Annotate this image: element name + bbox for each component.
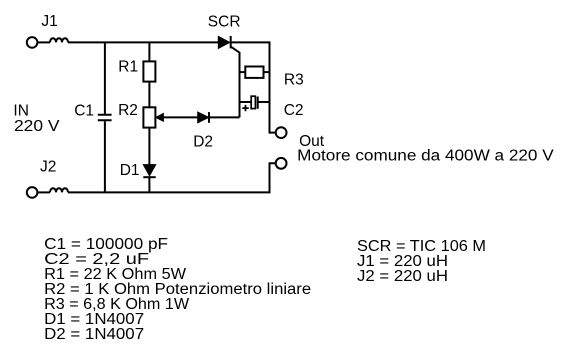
- capacitor C2 positive plate (hollow): [251, 96, 255, 108]
- wire gate node to C2 left plate: [240, 101, 252, 103]
- wire C2 right plate to right rail: [258, 101, 270, 103]
- svg-text:J2 = 220 uH: J2 = 220 uH: [357, 268, 448, 285]
- terminal J2 input circle: [27, 187, 38, 198]
- svg-text:J1: J1: [41, 13, 57, 30]
- svg-text:SCR: SCR: [208, 14, 241, 31]
- svg-text:D2: D2: [193, 134, 213, 151]
- resistor R1: [143, 61, 155, 81]
- wire SCR cathode to right corner, down right side to Out terminal 1: [231, 42, 276, 132]
- SCR gate lead diagonal and vertical down to wiper wire: [231, 47, 240, 118]
- wire gate node to R3 left: [240, 71, 246, 73]
- svg-text:Motore comune da 400W a 220 V: Motore comune da 400W a 220 V: [297, 148, 554, 165]
- inductor J2: [50, 188, 68, 192]
- svg-text:C1: C1: [74, 103, 94, 120]
- SCR cathode bar: [230, 36, 232, 48]
- terminal J1 input circle: [27, 37, 38, 48]
- capacitor C2 plus sign: [242, 105, 248, 111]
- wire Out lower terminal down and along bottom to J2 inductor: [68, 163, 276, 192]
- wire C1 down to bottom wire: [104, 121, 106, 192]
- resistor R2 potentiometer body: [143, 107, 155, 127]
- wire R2 wiper to D2 anode: [163, 116, 198, 118]
- wire D2 cathode to gate node: [210, 116, 240, 118]
- potentiometer R2 wiper arrow head: [156, 114, 164, 122]
- SCR thyristor triangle: [218, 36, 229, 48]
- inductor J1: [50, 38, 68, 42]
- svg-text:IN: IN: [13, 103, 29, 120]
- diode D1 cathode bar: [143, 176, 155, 178]
- svg-text:D1: D1: [120, 162, 140, 179]
- svg-text:J2: J2: [40, 159, 56, 176]
- svg-text:C2: C2: [284, 102, 304, 119]
- wire R3 right to right rail: [264, 71, 270, 73]
- svg-text:R1: R1: [118, 59, 138, 76]
- wire middle branch: top wire down to R1: [148, 42, 150, 61]
- terminal Out lower circle: [276, 158, 287, 169]
- wire left branch: top wire down to C1: [104, 42, 106, 114]
- svg-text:220 V: 220 V: [14, 118, 60, 135]
- svg-text:R3: R3: [284, 71, 304, 88]
- wire D1 cathode to bottom wire: [148, 177, 150, 192]
- capacitor C2 negative plate: [257, 97, 259, 109]
- wire terminal to L1: [38, 41, 50, 43]
- diode D2 cathode bar: [208, 112, 210, 123]
- resistor R3: [245, 67, 263, 78]
- diode D2 triangle: [198, 112, 209, 123]
- svg-text:D2 = 1N4007: D2 = 1N4007: [44, 326, 144, 343]
- capacitor C1: [98, 115, 112, 121]
- terminal Out upper circle: [276, 127, 287, 138]
- wire R2 to D1: [148, 128, 150, 165]
- svg-text:R2: R2: [118, 102, 138, 119]
- wire top: inductor to SCR anode: [68, 41, 218, 43]
- wire L2 to terminal J2: [38, 191, 50, 193]
- wire R1 to R2: [148, 82, 150, 108]
- diode D1 triangle: [143, 165, 155, 176]
